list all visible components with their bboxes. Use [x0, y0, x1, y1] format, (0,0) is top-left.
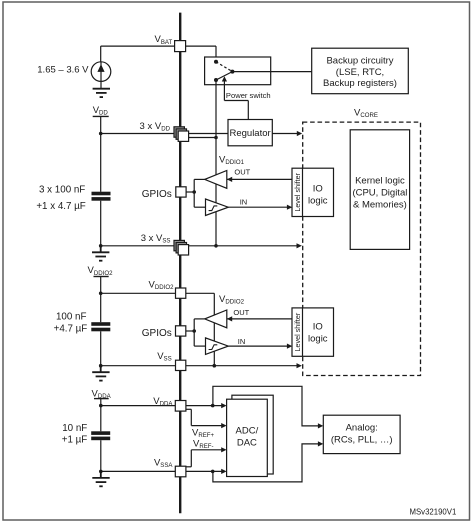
- wire VDDIO2 rail: [101, 293, 216, 367]
- svg-text:(LSE, RTC,: (LSE, RTC,: [336, 67, 384, 78]
- kernel logic block: [350, 130, 409, 250]
- capacitor C1 3x100nF + 4.7uF: [92, 134, 111, 246]
- output buffer (driver) section 2: [205, 310, 227, 328]
- battery source V1 1.65-3.6 V: [91, 62, 111, 89]
- svg-text:Kernel logic: Kernel logic: [355, 176, 405, 187]
- svg-text:ADC/: ADC/: [236, 425, 259, 436]
- backup circuitry block: [312, 48, 409, 93]
- wire power switch to backup circuitry: [232, 71, 311, 73]
- wire regulator output to power switch (arrow up): [222, 76, 249, 119]
- svg-text:(RCs, PLL, …): (RCs, PLL, …): [331, 434, 393, 445]
- svg-text:10 nF: 10 nF: [62, 423, 87, 434]
- svg-text:Level shifter: Level shifter: [293, 172, 302, 211]
- svg-text:OUT: OUT: [234, 167, 250, 176]
- svg-text:GPIOs: GPIOs: [142, 328, 172, 339]
- svg-text:+1 x 4.7 µF: +1 x 4.7 µF: [36, 201, 85, 212]
- wire VSS rail section 2: [99, 363, 302, 368]
- wire ADC to analog block top (arrow): [318, 423, 323, 428]
- output buffer section 1 wires: [185, 179, 205, 207]
- pin VBAT: [175, 41, 186, 52]
- analog peripherals block: [323, 415, 400, 453]
- svg-text:IO: IO: [313, 183, 323, 194]
- pin 3 x VSS (stacked): [174, 240, 189, 255]
- power switch SW1: [205, 57, 271, 85]
- pin VDDIO2: [176, 288, 186, 298]
- svg-text:+1 µF: +1 µF: [62, 435, 88, 446]
- wire VSSA return from analog block (lower C path): [213, 444, 321, 482]
- ground (section 1 capacitor): [92, 246, 109, 261]
- svg-text:logic: logic: [308, 334, 328, 345]
- regulator U1: [228, 120, 272, 146]
- svg-text:IN: IN: [238, 337, 246, 346]
- pin VDDA: [175, 401, 186, 412]
- wire VREF+ (arrow into ADC): [186, 409, 227, 428]
- ground (analog capacitor): [92, 471, 109, 486]
- node VDDIO2 stub: [94, 277, 109, 296]
- wire VDD rail: [101, 133, 228, 135]
- input schmitt buffer section 2: [206, 338, 229, 355]
- svg-text:& Memories): & Memories): [353, 199, 407, 210]
- wire VDDA feed to analog block (upper C path): [213, 386, 321, 426]
- svg-text:1.65 – 3.6 V: 1.65 – 3.6 V: [37, 65, 89, 76]
- wire input buffer to level shifter (arrow right): [228, 205, 292, 210]
- wire ADC to analog block bottom (arrow): [318, 441, 323, 446]
- ground (battery source): [93, 89, 110, 97]
- pin VSS section 2: [176, 360, 186, 370]
- svg-text:IN: IN: [240, 198, 248, 207]
- wire VDD pin to internal supply line: [184, 136, 218, 140]
- svg-text:OUT: OUT: [233, 308, 249, 317]
- wire level shifter to output buffer (arrow left): [227, 177, 292, 182]
- ADC/DAC block (stacked): [227, 395, 274, 476]
- wire IO buffer supply line section 1: [214, 138, 218, 248]
- svg-text:GPIOs: GPIOs: [142, 189, 172, 200]
- wire power switch to VDD rail: [215, 80, 217, 138]
- svg-text:Backup registers): Backup registers): [323, 78, 397, 89]
- node VDD stub: [93, 116, 109, 135]
- svg-text:Analog:: Analog:: [346, 422, 378, 433]
- wire input buffer to level shifter section 2 (arrow right): [228, 344, 292, 349]
- wire chip supply bus (vertical boundary line): [179, 13, 181, 514]
- wire VDDA rail (arrow into ADC): [101, 403, 227, 408]
- svg-text:logic: logic: [308, 195, 328, 206]
- pin VSSA: [175, 466, 186, 477]
- svg-text:Level shifter: Level shifter: [293, 312, 302, 351]
- wire VBAT rail: [101, 46, 219, 62]
- input schmitt buffer section 1: [206, 199, 229, 216]
- node VDDA stub: [94, 399, 109, 408]
- VCORE domain dashed box: [303, 122, 421, 375]
- level shifter / IO logic block section 2: [292, 308, 334, 356]
- pin 3 x VDD (stacked): [174, 127, 189, 142]
- output buffer section 2 wires: [186, 319, 206, 346]
- svg-text:Backup circuitry: Backup circuitry: [326, 56, 393, 67]
- svg-text:Power switch: Power switch: [226, 91, 271, 100]
- svg-text:+4.7 µF: +4.7 µF: [54, 323, 88, 334]
- capacitor C2 100nF + 4.7uF: [91, 293, 110, 365]
- svg-text:DAC: DAC: [237, 437, 257, 448]
- wire 3xVSS rail: [99, 243, 302, 248]
- svg-text:(CPU, Digital: (CPU, Digital: [352, 188, 407, 199]
- wire VREF- (arrow into ADC): [186, 447, 227, 467]
- capacitor C3 10nF + 1uF: [91, 406, 110, 472]
- svg-text:IO: IO: [313, 322, 323, 333]
- wire level shifter to output buffer section 2 (arrow left): [227, 316, 292, 321]
- svg-text:3 x 100 nF: 3 x 100 nF: [39, 185, 85, 196]
- wire VSSA rail (arrow into ADC): [99, 469, 227, 474]
- svg-text:MSv32190V1: MSv32190V1: [409, 507, 456, 516]
- svg-text:100 nF: 100 nF: [56, 311, 87, 322]
- pin GPIOs section 2: [176, 326, 186, 336]
- ground (section 2 capacitor): [92, 366, 109, 381]
- wire regulator to VCORE (arrow): [272, 131, 302, 136]
- level shifter / IO logic block section 1: [292, 168, 334, 216]
- svg-text:Regulator: Regulator: [229, 128, 270, 139]
- pin GPIOs section 1: [176, 187, 186, 197]
- output buffer (driver) section 1: [205, 171, 227, 189]
